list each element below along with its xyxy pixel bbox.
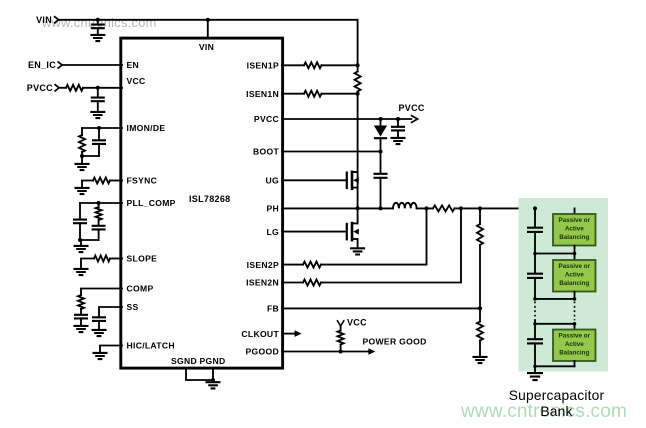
pin PGND label	[199, 356, 225, 366]
node balancing block 3	[553, 330, 596, 362]
ground COMP	[74, 326, 89, 332]
wire PH net	[282, 207, 393, 209]
svg-text:EN_IC: EN_IC	[28, 60, 56, 70]
junction tap3 left	[533, 322, 537, 326]
wire Q1 drain	[352, 94, 358, 172]
svg-text:Balancing: Balancing	[559, 280, 589, 287]
capacitor C9 bootstrap	[374, 152, 388, 209]
ground C8	[391, 138, 406, 144]
pin LG label	[266, 227, 279, 237]
svg-text:BOOT: BOOT	[253, 147, 279, 157]
svg-text:Passive or: Passive or	[559, 217, 591, 224]
ground C2	[90, 112, 105, 118]
pin PH label	[266, 204, 279, 214]
svg-text:ISEN1P: ISEN1P	[247, 61, 279, 71]
svg-text:PH: PH	[266, 204, 279, 214]
pin HIC/LATCH label	[127, 341, 175, 351]
watermark bottom www.cntronics.com	[460, 401, 627, 422]
svg-text:UG: UG	[266, 176, 280, 186]
wire dotted continuation left	[534, 302, 536, 321]
wire FB net	[282, 307, 480, 309]
junction tap4 left	[533, 365, 537, 369]
wire SGND stub	[186, 368, 213, 380]
wire PVCC out net	[282, 118, 411, 120]
resistor R8 ISEN1P	[304, 62, 358, 68]
junction PH-Q1	[356, 206, 360, 210]
wire PLL_COMP net	[80, 202, 122, 204]
junction VCC-C2	[96, 86, 100, 90]
resistor R14 FB upper	[477, 208, 483, 308]
watermark top-left www.cntronics.com	[41, 15, 157, 30]
resistor R7 COMP	[78, 295, 84, 315]
wire SS net	[99, 307, 122, 317]
svg-text:Balancing: Balancing	[559, 234, 589, 241]
capacitor C5 PLL series	[92, 226, 106, 240]
wire HIC/LATCH to gnd	[100, 346, 122, 353]
ground FB divider	[473, 357, 488, 363]
junction PH-ISEN2P	[425, 206, 429, 210]
wire ISEN1N net	[282, 93, 304, 95]
svg-text:VIN: VIN	[36, 15, 52, 25]
svg-text:COMP: COMP	[127, 284, 154, 294]
ground FSYNC	[75, 188, 90, 194]
svg-text:HIC/LATCH: HIC/LATCH	[127, 341, 175, 351]
node balancing block 1	[553, 214, 596, 246]
junction PVCC-D1	[379, 117, 383, 121]
pin BOOT label	[253, 147, 279, 157]
svg-text:Active: Active	[565, 341, 584, 348]
transistor Q2 low-side NFET	[347, 208, 359, 248]
svg-text:ISL78268: ISL78268	[189, 194, 230, 204]
wire bank cap string seg1	[534, 208, 536, 227]
svg-text:VIN: VIN	[199, 42, 214, 52]
node PVCC out arrow	[399, 103, 425, 123]
svg-text:Active: Active	[565, 226, 584, 233]
pin COMP label	[127, 284, 154, 294]
wire bank tap3	[535, 320, 575, 323]
svg-text:PLL_COMP: PLL_COMP	[127, 198, 176, 208]
wire UG net	[282, 179, 347, 181]
ground SLOPE	[74, 269, 89, 275]
svg-text:ISEN2N: ISEN2N	[246, 278, 279, 288]
wire ISEN2N net	[282, 282, 303, 284]
junction bank input	[533, 206, 537, 210]
svg-text:EN: EN	[127, 60, 140, 70]
resistor R6 SLOPE	[94, 256, 122, 262]
wire bank tap2	[535, 298, 575, 300]
svg-text:SLOPE: SLOPE	[127, 254, 158, 264]
svg-text:Passive or: Passive or	[559, 333, 591, 340]
resistor R11 output sense	[433, 205, 461, 211]
wire bal3 to tap4	[574, 361, 576, 366]
resistor R5 PLL	[96, 203, 102, 226]
pin ISEN1N label	[246, 89, 279, 99]
wire bal1 to tap1	[574, 246, 576, 254]
wire CLKOUT arrow	[282, 330, 302, 337]
capacitor C3 IMON	[92, 128, 106, 156]
pin SGND label	[171, 356, 197, 366]
capacitor C10 supercap1	[527, 228, 543, 254]
resistor R9 ISEN1 sense	[355, 65, 361, 93]
junction PLL gnd	[78, 238, 82, 242]
svg-text:PGND: PGND	[199, 356, 225, 366]
pin SS label	[127, 302, 139, 312]
pin FB label	[267, 304, 279, 314]
capacitor C6 COMP	[74, 315, 88, 326]
junction ISEN1N	[356, 92, 360, 96]
junction tap2 right	[573, 297, 577, 301]
node Supercapacitor Bank label	[509, 388, 605, 419]
junction tap1 left	[533, 252, 537, 256]
node EN_IC input	[28, 60, 62, 70]
ground SS	[92, 330, 107, 336]
wire PLL bottom	[80, 239, 99, 241]
pin VCC label	[127, 76, 146, 86]
junction PH-C9	[379, 206, 383, 210]
junction tap3 right	[573, 322, 577, 326]
resistor R15 FB lower	[477, 308, 483, 356]
pin PGOOD label	[246, 347, 280, 357]
svg-text:ISEN2P: ISEN2P	[247, 260, 279, 270]
svg-text:CLKOUT: CLKOUT	[241, 329, 279, 339]
capacitor C8 PVCC	[391, 119, 405, 138]
svg-text:VCC: VCC	[347, 317, 367, 327]
pin PVCC label	[254, 114, 279, 124]
node balancing block 2	[553, 260, 596, 292]
svg-text:IMON/DE: IMON/DE	[127, 123, 166, 133]
wire bank tap1	[535, 253, 575, 255]
pin SLOPE label	[127, 254, 158, 264]
resistor R16 PGOOD pullup	[338, 326, 344, 352]
svg-text:PVCC: PVCC	[254, 114, 279, 124]
svg-text:PVCC: PVCC	[27, 83, 53, 93]
wire tap3 to bal3	[574, 324, 576, 330]
svg-text:VCC: VCC	[127, 76, 146, 86]
pin ISEN2N label	[246, 278, 279, 288]
svg-text:PGOOD: PGOOD	[246, 347, 280, 357]
capacitor C4 PLL	[73, 203, 87, 240]
capacitor C7 SS	[92, 317, 106, 329]
wire L1 to R11	[417, 207, 433, 209]
wire bank gnd stem	[534, 366, 536, 373]
svg-text:LG: LG	[266, 227, 279, 237]
junction PLL-RC	[97, 201, 101, 205]
junction ISEN1P	[356, 63, 360, 67]
svg-text:Passive or: Passive or	[559, 263, 591, 270]
pin CLKOUT label	[241, 329, 279, 339]
svg-text:FB: FB	[267, 304, 279, 314]
junction IMON-RC	[97, 126, 101, 130]
junction PVCC-C8	[396, 117, 400, 121]
wire COMP net	[81, 289, 122, 296]
capacitor C11 supercap2	[527, 254, 543, 299]
wire balancer chain top	[574, 208, 576, 214]
pin VIN label	[199, 42, 214, 52]
svg-text:ISEN1N: ISEN1N	[246, 89, 279, 99]
junction PGOOD	[339, 350, 343, 354]
wire ISEN2P to PH	[321, 208, 427, 264]
pin ISEN1P label	[247, 61, 279, 71]
ground IMON	[75, 164, 90, 170]
wire IMON RC bottom	[82, 155, 99, 157]
junction tap2 left	[533, 297, 537, 301]
pin FSYNC label	[127, 176, 158, 186]
svg-text:SS: SS	[127, 302, 139, 312]
svg-text:Balancing: Balancing	[559, 349, 589, 356]
wire EN_IC to EN	[62, 64, 122, 66]
node PVCC input left	[27, 83, 59, 93]
wire PGOOD net	[282, 351, 341, 353]
junction tap1 right	[573, 252, 577, 256]
wire FSYNC to gnd	[82, 181, 93, 188]
wire PVCC terminal to R2	[59, 87, 66, 89]
ground PLL	[74, 246, 89, 252]
wire VIN rail to Q1 drain	[59, 20, 358, 66]
wire ISEN1P net	[282, 64, 304, 66]
svg-text:PVCC: PVCC	[399, 103, 425, 113]
capacitor C2 VCC bypass	[91, 88, 105, 112]
junction VIN pin	[206, 18, 210, 22]
resistor R3 IMON	[79, 128, 85, 156]
ground C1	[90, 35, 105, 41]
wire ISEN2N to output	[321, 208, 461, 282]
wire output node	[461, 207, 575, 209]
inductor L1	[393, 203, 417, 209]
svg-text:Active: Active	[565, 272, 584, 279]
pin IMON/DE label	[127, 123, 166, 133]
transistor Q1 high-side NFET	[347, 171, 359, 209]
resistor R13 ISEN2N	[303, 280, 321, 286]
wire dotted continuation right	[574, 302, 576, 321]
ground Q2 source	[350, 248, 365, 254]
resistor R2 PVCC-VCC	[66, 85, 83, 91]
junction BOOT	[379, 150, 383, 154]
svg-text:POWER GOOD: POWER GOOD	[363, 337, 427, 347]
resistor R4 FSYNC	[93, 178, 122, 184]
ground HIC/LATCH	[93, 353, 108, 359]
op-amp U1 ISL78268 controller body	[121, 38, 283, 368]
pin UG label	[266, 176, 280, 186]
diode D1 boot	[374, 119, 387, 152]
pin ISEN2P label	[247, 260, 279, 270]
junction FB	[478, 306, 482, 310]
node POWER GOOD label	[363, 337, 427, 347]
pin EN label	[127, 60, 140, 70]
wire VIN pin stub	[207, 20, 209, 38]
wire PGND stub	[212, 368, 214, 382]
node supercapacitor bank background	[519, 198, 609, 372]
capacitor C1 VIN bypass	[91, 20, 105, 35]
svg-text:FSYNC: FSYNC	[127, 176, 158, 186]
junction PGND	[211, 378, 215, 382]
capacitor C12 supercapN	[527, 324, 543, 367]
wire LG net	[282, 231, 347, 233]
junction VIN-C1	[96, 18, 100, 22]
wire IMON gnd stem	[81, 156, 83, 164]
power VCC arrow	[337, 317, 367, 327]
resistor R12 ISEN2P	[303, 262, 321, 268]
ground PGND	[206, 382, 221, 388]
svg-text:SGND: SGND	[171, 356, 197, 366]
junction R11-ISEN2N	[459, 206, 463, 210]
wire bal2 to tap2	[574, 292, 576, 299]
node VIN input terminal	[36, 15, 59, 25]
wire IMON/DE net	[82, 127, 122, 129]
wire ISEN2P net	[282, 264, 303, 266]
wire tap1 to bal2	[574, 254, 576, 261]
ground supercap bank	[527, 373, 543, 380]
wire bank tap4	[535, 365, 575, 367]
node U1 name ISL78268	[189, 194, 230, 204]
resistor R10 ISEN1N	[304, 91, 358, 97]
wire BOOT net	[282, 151, 381, 153]
svg-text:Bank: Bank	[540, 404, 572, 419]
svg-text:Supercapacitor: Supercapacitor	[509, 388, 605, 403]
junction IMON gnd	[80, 154, 84, 158]
wire R2 to VCC pin	[83, 87, 122, 89]
wire PGOOD arrow	[341, 348, 376, 355]
junction output-FB divider	[478, 206, 482, 210]
pin PLL_COMP label	[127, 198, 176, 208]
wire PLL gnd stem	[80, 240, 82, 246]
wire SLOPE to gnd	[81, 259, 94, 269]
